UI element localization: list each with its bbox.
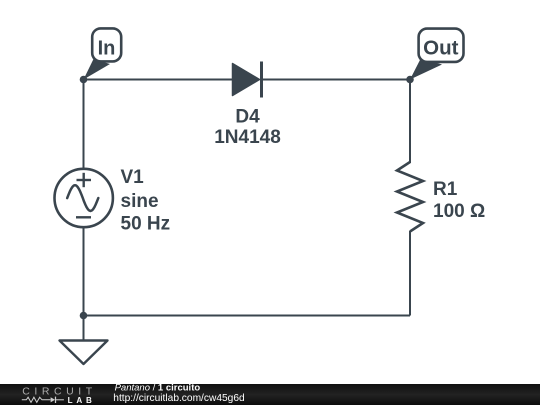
svg-text:1N4148: 1N4148: [214, 127, 281, 148]
wire right rail lower (R1 bottom to bottom wire): [409, 231, 411, 316]
voltage source V1: [54, 169, 112, 227]
wire left rail lower (V1 bottom down to ground junction): [83, 227, 85, 316]
CircuitLab logo: [22, 385, 97, 405]
flag Out: [410, 29, 464, 80]
resistor R1: [397, 162, 423, 232]
node Out junction dot: [406, 76, 414, 84]
diode D4: [233, 62, 262, 98]
wire bottom horizontal: [84, 315, 411, 317]
svg-text:D4: D4: [235, 107, 260, 128]
node ground junction dot: [80, 312, 88, 320]
wire top-right horizontal (diode cathode to Out node): [262, 79, 411, 81]
svg-text:100 Ω: 100 Ω: [433, 201, 485, 222]
svg-text:sine: sine: [121, 191, 159, 212]
wire left rail upper (In node down to V1 top): [83, 80, 85, 170]
wire top-left horizontal (In node to diode anode): [84, 79, 234, 81]
wire right rail upper (Out node to R1 top): [409, 80, 411, 164]
svg-text:LAB: LAB: [68, 396, 96, 405]
svg-text:Out: Out: [423, 37, 458, 60]
node In junction dot: [80, 76, 88, 84]
svg-text:Pantano / 1 circuito: Pantano / 1 circuito: [115, 383, 201, 394]
flag In: [84, 28, 122, 79]
svg-text:R1: R1: [433, 179, 458, 200]
svg-text:http://circuitlab.com/cw45g6d: http://circuitlab.com/cw45g6d: [113, 393, 245, 404]
ground: [60, 316, 108, 364]
svg-text:50 Hz: 50 Hz: [121, 214, 171, 235]
svg-text:V1: V1: [121, 167, 145, 188]
svg-text:In: In: [98, 37, 116, 59]
